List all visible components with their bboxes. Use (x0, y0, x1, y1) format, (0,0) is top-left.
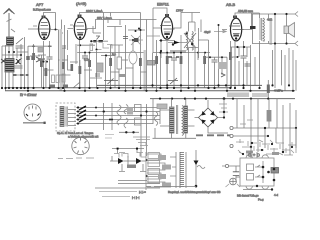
resistor R6 (155, 56, 158, 64)
wire (110, 156, 147, 171)
tube V4 (229, 18, 244, 41)
transformer in box (60, 107, 67, 127)
wire y55.5 (101, 55, 115, 57)
tube V3 bottom pin (166, 36, 168, 38)
gray patch bus right 2 (252, 93, 268, 97)
wire (63, 55, 73, 88)
speaker (284, 23, 295, 38)
wire y40.5 (159, 41, 175, 59)
svg-text:40µF: 40µF (204, 30, 211, 34)
node (221, 56, 223, 58)
wire left mesh (2, 37, 28, 91)
wire (146, 186, 196, 188)
dots pair (43, 61, 45, 63)
tube V1 bottom pin (43, 36, 45, 38)
pot block (117, 57, 122, 69)
resistor outline (56, 75, 59, 83)
wire top right link (230, 47, 250, 57)
node (138, 28, 140, 30)
node (264, 127, 266, 129)
wire under DIN (23, 122, 46, 124)
gray blob cluster (218, 62, 227, 69)
cap (233, 172, 239, 176)
wire V2 down (68, 25, 80, 88)
switch contact (1, 59, 6, 63)
node (209, 56, 211, 58)
node (111, 119, 113, 121)
pot arrows (168, 78, 178, 84)
resistor R10 (267, 85, 270, 94)
wire (45, 60, 47, 88)
node (89, 52, 91, 54)
diode D2 (136, 158, 142, 164)
wire (174, 35, 181, 91)
AVC diode (168, 42, 186, 44)
wire V1 down (28, 26, 58, 88)
node (33, 45, 35, 47)
resistor outline (52, 75, 55, 83)
label dashes under transformer (196, 134, 232, 136)
node (103, 111, 105, 113)
link wire y52.6 (153, 52, 210, 54)
svg-text:0,1µ: 0,1µ (84, 58, 90, 62)
power transformer secondary (182, 106, 184, 136)
dark dash row y75 (13, 74, 29, 76)
node (185, 32, 187, 34)
antenna (4, 9, 16, 43)
svg-text:|-| |-○: |-| |-○ (139, 190, 146, 194)
wire (268, 99, 270, 128)
wire plate link (198, 40, 209, 88)
text smudge (105, 135, 114, 139)
wire taps (68, 110, 76, 126)
capacitor C3 (47, 57, 53, 59)
wire (176, 150, 196, 188)
IF transformer T2 (184, 32, 198, 51)
switch contact (36, 57, 40, 62)
wire plate V1 (44, 13, 56, 19)
wire (93, 20, 106, 92)
dashed box (56, 103, 75, 131)
end blob (44, 122, 46, 124)
svg-text:AB6,5B mm: AB6,5B mm (238, 9, 254, 13)
svg-text:AB.B: AB.B (226, 2, 235, 7)
link wire y57 (203, 56, 227, 58)
grid cap V2 (78, 15, 82, 18)
node (135, 30, 137, 32)
wire speaker stub (273, 14, 287, 88)
crossing wires cluster (129, 35, 143, 45)
node (160, 50, 162, 52)
grid cap V1 (42, 16, 46, 19)
node (145, 159, 147, 161)
choke coil comb (180, 152, 184, 188)
svg-text:M.Kapazit.aus: M.Kapazit.aus (33, 8, 51, 12)
node (132, 39, 134, 41)
resistor R5 (139, 58, 142, 66)
component block (147, 61, 155, 66)
wire (30, 56, 80, 88)
wire (128, 13, 145, 89)
wire (111, 45, 124, 88)
wire below box (243, 147, 272, 190)
wire V4 down (222, 30, 235, 89)
link row y148.5 (112, 148, 144, 150)
node (13, 51, 15, 53)
squiggle (197, 166, 205, 169)
coil L1 (7, 37, 14, 45)
power transformer secondary 2 (184, 106, 188, 133)
node (140, 114, 142, 116)
node (243, 46, 245, 48)
grid cap V4 (233, 16, 237, 19)
bridge rectifier (199, 108, 218, 127)
node (132, 131, 134, 133)
stubs above diodes (119, 153, 143, 157)
node (125, 131, 127, 133)
wire (153, 40, 161, 91)
node (140, 29, 142, 31)
block (73, 82, 80, 88)
wire left links (2, 46, 28, 75)
cap C (60, 46, 66, 48)
bus line 3 (5, 90, 295, 92)
lower left tiny text (58, 157, 94, 160)
switch curls (154, 112, 158, 126)
svg-text:Mit darauf Urh.ge: Mit darauf Urh.ge (237, 194, 259, 198)
gray band vertical 3 (144, 50, 146, 91)
link wire (76, 52, 145, 54)
resistor (79, 66, 82, 74)
node (20, 54, 22, 56)
node (96, 49, 98, 51)
gray band vertical (60, 29, 63, 91)
wire (268, 48, 293, 99)
label C (222, 165, 226, 167)
svg-text:4-d: 4-d (274, 193, 278, 197)
node (90, 40, 92, 42)
resistor (127, 165, 136, 169)
node (172, 43, 174, 45)
svg-text:(A+B): (A+B) (76, 1, 87, 6)
dark nodes right box (262, 166, 265, 169)
wire (85, 53, 90, 92)
svg-text:85V 1,3mA: 85V 1,3mA (97, 16, 112, 20)
node (195, 185, 198, 188)
svg-text:0,1: 0,1 (112, 52, 116, 56)
filter cap bar (267, 110, 272, 122)
dark component right edge (271, 168, 279, 174)
switch bank bottom (146, 152, 176, 190)
small parts right-mid (240, 120, 253, 124)
gray patch bus right (227, 93, 249, 98)
small rect (119, 74, 125, 77)
diode D1 (118, 158, 124, 164)
wire crossing verticals (104, 103, 113, 130)
trimmer arrow C2 (15, 58, 23, 68)
wire under transformer (153, 128, 197, 138)
resistor (62, 62, 65, 69)
cap (245, 64, 251, 66)
contact bottom right (295, 41, 298, 46)
wire (189, 13, 199, 92)
wire y46 under V1 (28, 45, 52, 47)
tube V4 bottom pin (235, 37, 237, 39)
wire (58, 48, 68, 60)
wire verticals down (141, 99, 160, 156)
tone network dots (242, 127, 297, 155)
arrow right small (214, 30, 226, 32)
resistor R9 (229, 52, 232, 60)
wire (233, 45, 251, 91)
wire (215, 25, 228, 91)
svg-text:Er + dDruur: Er + dDruur (20, 93, 38, 97)
svg-text:100V 1,5mA: 100V 1,5mA (86, 9, 103, 13)
svg-text:Ps.g: Ps.g (258, 198, 264, 202)
node (274, 13, 276, 15)
node (285, 13, 287, 15)
wire (198, 20, 205, 89)
grid cap V3 (165, 14, 169, 17)
node (160, 39, 162, 41)
svg-text:AF7: AF7 (36, 2, 44, 7)
output transformer T3 (259, 18, 265, 41)
svg-text:170V: 170V (176, 9, 183, 13)
wire antenna down (8, 42, 10, 88)
node (218, 24, 220, 26)
coupling cap C5 (123, 37, 128, 39)
C bracket lower (135, 118, 142, 125)
tube V3 (160, 17, 175, 39)
wire screen bus (86, 20, 157, 29)
node (274, 42, 276, 44)
block under V1 (38, 48, 43, 53)
node (236, 46, 238, 48)
svg-text:4kΩ: 4kΩ (267, 18, 272, 22)
wire right area (233, 99, 296, 152)
text dash rows (99, 192, 137, 197)
diode arrow (194, 161, 199, 166)
C bracket upper (135, 105, 142, 112)
svg-text:Regelspl. nachRichtungsweisNap: Regelspl. nachRichtungsweisNapf aus GB (168, 190, 221, 194)
wire transformer (160, 99, 195, 139)
cap dark pair (27, 56, 32, 60)
oscillator coil black bars (91, 36, 108, 42)
small rect (71, 64, 74, 71)
wire x115 (107, 27, 122, 89)
T-bars (119, 171, 146, 173)
svg-text:EBF11: EBF11 (157, 2, 170, 7)
resistor R7 (203, 56, 206, 64)
wire elbows (97, 43, 113, 50)
gray band vertical 2 (75, 44, 77, 64)
node (191, 43, 193, 45)
tube V1 (37, 18, 51, 40)
cap (95, 74, 100, 76)
link row y132 (119, 131, 139, 133)
switch wafer braces (117, 105, 121, 125)
tone network (236, 139, 296, 155)
wire speaker top (252, 13, 295, 15)
wire (230, 41, 243, 88)
node (271, 188, 273, 190)
resistor (45, 68, 48, 76)
terminal o2 (230, 134, 233, 137)
wire plate V4 (235, 13, 260, 30)
power transformer primary (170, 107, 175, 133)
gray small block (97, 63, 104, 72)
node (223, 116, 225, 118)
coil L2 (5, 59, 14, 73)
wire (229, 166, 240, 181)
node (145, 175, 147, 177)
resistor R1 (32, 53, 35, 60)
component bottoms near bus (49, 85, 55, 88)
contact top right (295, 12, 298, 17)
node (55, 29, 57, 31)
wire (33, 44, 35, 88)
cap C9 (241, 56, 247, 58)
dark center blob (134, 38, 139, 42)
wire bridge (195, 99, 229, 133)
band switch lines (76, 106, 160, 125)
wires between V1 V2 (56, 13, 68, 92)
svg-text:25µF: 25µF (38, 58, 45, 62)
tube V2 bottom pin (79, 36, 81, 38)
wire (119, 25, 126, 91)
node (250, 146, 252, 148)
terminal o3 (230, 144, 233, 147)
node (79, 44, 81, 46)
node (223, 111, 225, 113)
capacitor C4 (82, 56, 88, 58)
node row y52.6 (160, 52, 207, 54)
elbow wires right (133, 137, 150, 146)
block (62, 74, 65, 82)
bus line 1 (97, 84, 262, 86)
wire (252, 14, 254, 44)
wire plate V2 top bus (80, 13, 141, 18)
cap C7 (171, 58, 177, 60)
bus line 2 (5, 87, 230, 89)
wire transformer (260, 13, 269, 88)
wire verticals tone (276, 128, 296, 155)
dark dashes (166, 56, 179, 58)
wire V3 sides (153, 13, 200, 89)
wire y52.5 ext (161, 52, 173, 54)
wire (49, 41, 51, 88)
square node (117, 148, 119, 150)
resistor R3 (88, 60, 91, 67)
node (61, 32, 63, 34)
node (84, 52, 86, 54)
junction dots buses (1, 84, 294, 100)
gray switch block (127, 108, 133, 115)
dark bar component (250, 26, 256, 29)
tube V2 (73, 17, 88, 39)
transformer core (176, 105, 177, 134)
wire under motor (226, 184, 241, 187)
gray bar bundle (170, 50, 186, 53)
bus line 4 (150, 98, 295, 100)
wire stubs top (104, 13, 121, 26)
variable cap C6 (129, 51, 137, 64)
node (282, 151, 284, 153)
node (237, 56, 239, 58)
DIN connector (24, 104, 41, 121)
gray band envelope (270, 18, 273, 45)
resistor (180, 56, 183, 64)
wire (166, 53, 168, 88)
small parts left of terminals (219, 104, 228, 112)
mains block (157, 104, 167, 109)
terminal o1 (230, 126, 233, 129)
potentiometer P1 (104, 79, 118, 85)
wire verticals right band (258, 99, 296, 148)
resistor (246, 151, 253, 154)
tube base diagram (72, 137, 89, 154)
wire V3 top (153, 8, 167, 53)
terminal C (225, 164, 228, 167)
wire comb right (232, 47, 297, 91)
wire y45 under V2 (75, 44, 95, 46)
svg-text:|~| |~|: |~| |~| (132, 196, 140, 200)
trimmer arrow C1 (16, 38, 24, 48)
node (8, 51, 10, 53)
connector block stack (148, 153, 160, 184)
right bottom subcircuit box (240, 155, 274, 189)
switch contact (221, 73, 225, 77)
cap C8 (212, 60, 218, 62)
node (145, 110, 147, 112)
extra links midband (44, 60, 147, 78)
wire speaker bottom (252, 43, 295, 45)
resistor outline (90, 44, 93, 51)
square node (136, 148, 138, 150)
resistor R4 (109, 58, 112, 66)
wire (147, 20, 157, 92)
node (105, 54, 107, 56)
resistor (272, 152, 279, 155)
contact marks right of coil (16, 59, 21, 64)
diode wire (146, 35, 160, 37)
wire (38, 55, 46, 88)
wire lines (95, 181, 160, 189)
resistor (166, 56, 169, 64)
node (285, 42, 287, 44)
brackets (114, 152, 146, 158)
resistor R2 (40, 60, 43, 67)
motor symbol (230, 178, 237, 185)
node (49, 45, 51, 47)
stubs (118, 150, 138, 154)
